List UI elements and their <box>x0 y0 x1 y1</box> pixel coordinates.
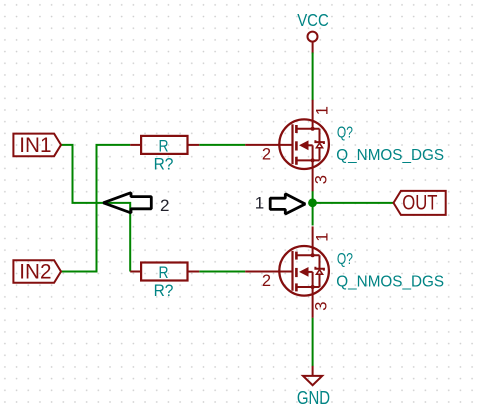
pin 3 (source) of Q2 <box>312 287 314 318</box>
wire Q1 source to Q2 drain <box>312 191 314 226</box>
marker arrow 2 fill (pointing left) <box>103 193 151 213</box>
wire VCC to Q1 drain <box>312 53 314 101</box>
svg-text:Q?: Q? <box>337 251 353 268</box>
svg-text:R?: R? <box>154 281 174 300</box>
marker arrow 2 outline (pointing left) <box>103 193 169 216</box>
svg-text:Q_NMOS_DGS: Q_NMOS_DGS <box>336 147 444 164</box>
wire R2 right to Q2 gate <box>199 271 245 273</box>
svg-text:Q_NMOS_DGS: Q_NMOS_DGS <box>336 274 444 291</box>
hierarchical label IN2 <box>13 260 61 283</box>
pin 2 (gate) of Q1 <box>245 144 292 146</box>
svg-text:2: 2 <box>160 196 169 215</box>
svg-text:R?: R? <box>154 154 174 173</box>
svg-text:IN1: IN1 <box>19 134 51 157</box>
hierarchical label IN1 <box>13 134 61 157</box>
hierarchical label OUT <box>394 190 446 215</box>
svg-text:IN2: IN2 <box>19 261 51 284</box>
pin 1 (drain) of Q1 <box>312 100 314 129</box>
svg-text:1: 1 <box>255 194 264 213</box>
ground symbol GND <box>297 366 330 408</box>
junction node OUT <box>308 198 317 207</box>
resistor R2 <box>130 263 199 300</box>
wire node to OUT <box>313 202 394 204</box>
svg-text:1: 1 <box>313 233 331 242</box>
svg-text:3: 3 <box>313 175 331 184</box>
svg-text:2: 2 <box>262 145 271 163</box>
svg-text:OUT: OUT <box>402 190 437 214</box>
svg-text:GND: GND <box>297 388 330 408</box>
svg-text:Q?: Q? <box>337 124 353 141</box>
svg-text:VCC: VCC <box>297 10 329 30</box>
wire IN2 up and across to R1 <box>61 145 130 272</box>
svg-text:R: R <box>159 263 169 282</box>
transistor Q1 <box>245 100 444 191</box>
svg-text:3: 3 <box>313 302 331 311</box>
wire IN1 to node, down and across <box>61 145 130 272</box>
power symbol VCC <box>297 10 329 54</box>
pin 2 (gate) of Q2 <box>245 271 292 273</box>
wire Q2 source to GND <box>312 318 314 367</box>
pin 1 (drain) of Q2 <box>312 226 314 255</box>
svg-text:2: 2 <box>262 272 271 290</box>
transistor Q2 <box>245 226 444 317</box>
svg-text:1: 1 <box>313 106 331 115</box>
pin 3 (source) of Q1 <box>312 160 314 191</box>
wire R1 right to Q1 gate <box>199 144 245 146</box>
marker arrow 1 (pointing right) <box>255 194 305 214</box>
resistor R1 <box>130 136 199 173</box>
svg-text:R: R <box>159 136 169 155</box>
